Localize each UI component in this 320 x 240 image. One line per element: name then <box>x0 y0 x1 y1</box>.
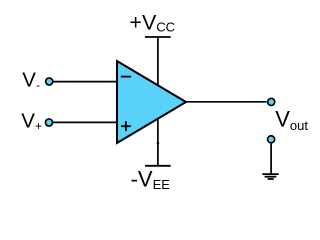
junction dot on -VEE rail <box>157 142 160 145</box>
node: Vout output terminal <box>268 98 275 105</box>
wire: +VCC supply rail <box>157 37 159 101</box>
wire: -VEE supply rail <box>157 101 159 166</box>
power symbol -VEE bar <box>145 165 171 167</box>
wire: non-inverting input wire <box>52 121 117 123</box>
node: ground reference terminal <box>268 136 275 143</box>
pin marker: non-inverting input plus sign <box>121 121 131 131</box>
pin marker: inverting input minus sign <box>121 76 131 78</box>
node: V- input terminal <box>46 78 53 85</box>
wire: output wire <box>186 101 267 103</box>
op-amp U1 triangle body <box>117 61 186 143</box>
power symbol +VCC bar <box>145 36 171 38</box>
node: V+ input terminal <box>45 119 52 126</box>
wire: inverting input wire <box>52 81 117 83</box>
ground symbol <box>262 174 278 179</box>
wire: ground stem <box>270 144 272 175</box>
